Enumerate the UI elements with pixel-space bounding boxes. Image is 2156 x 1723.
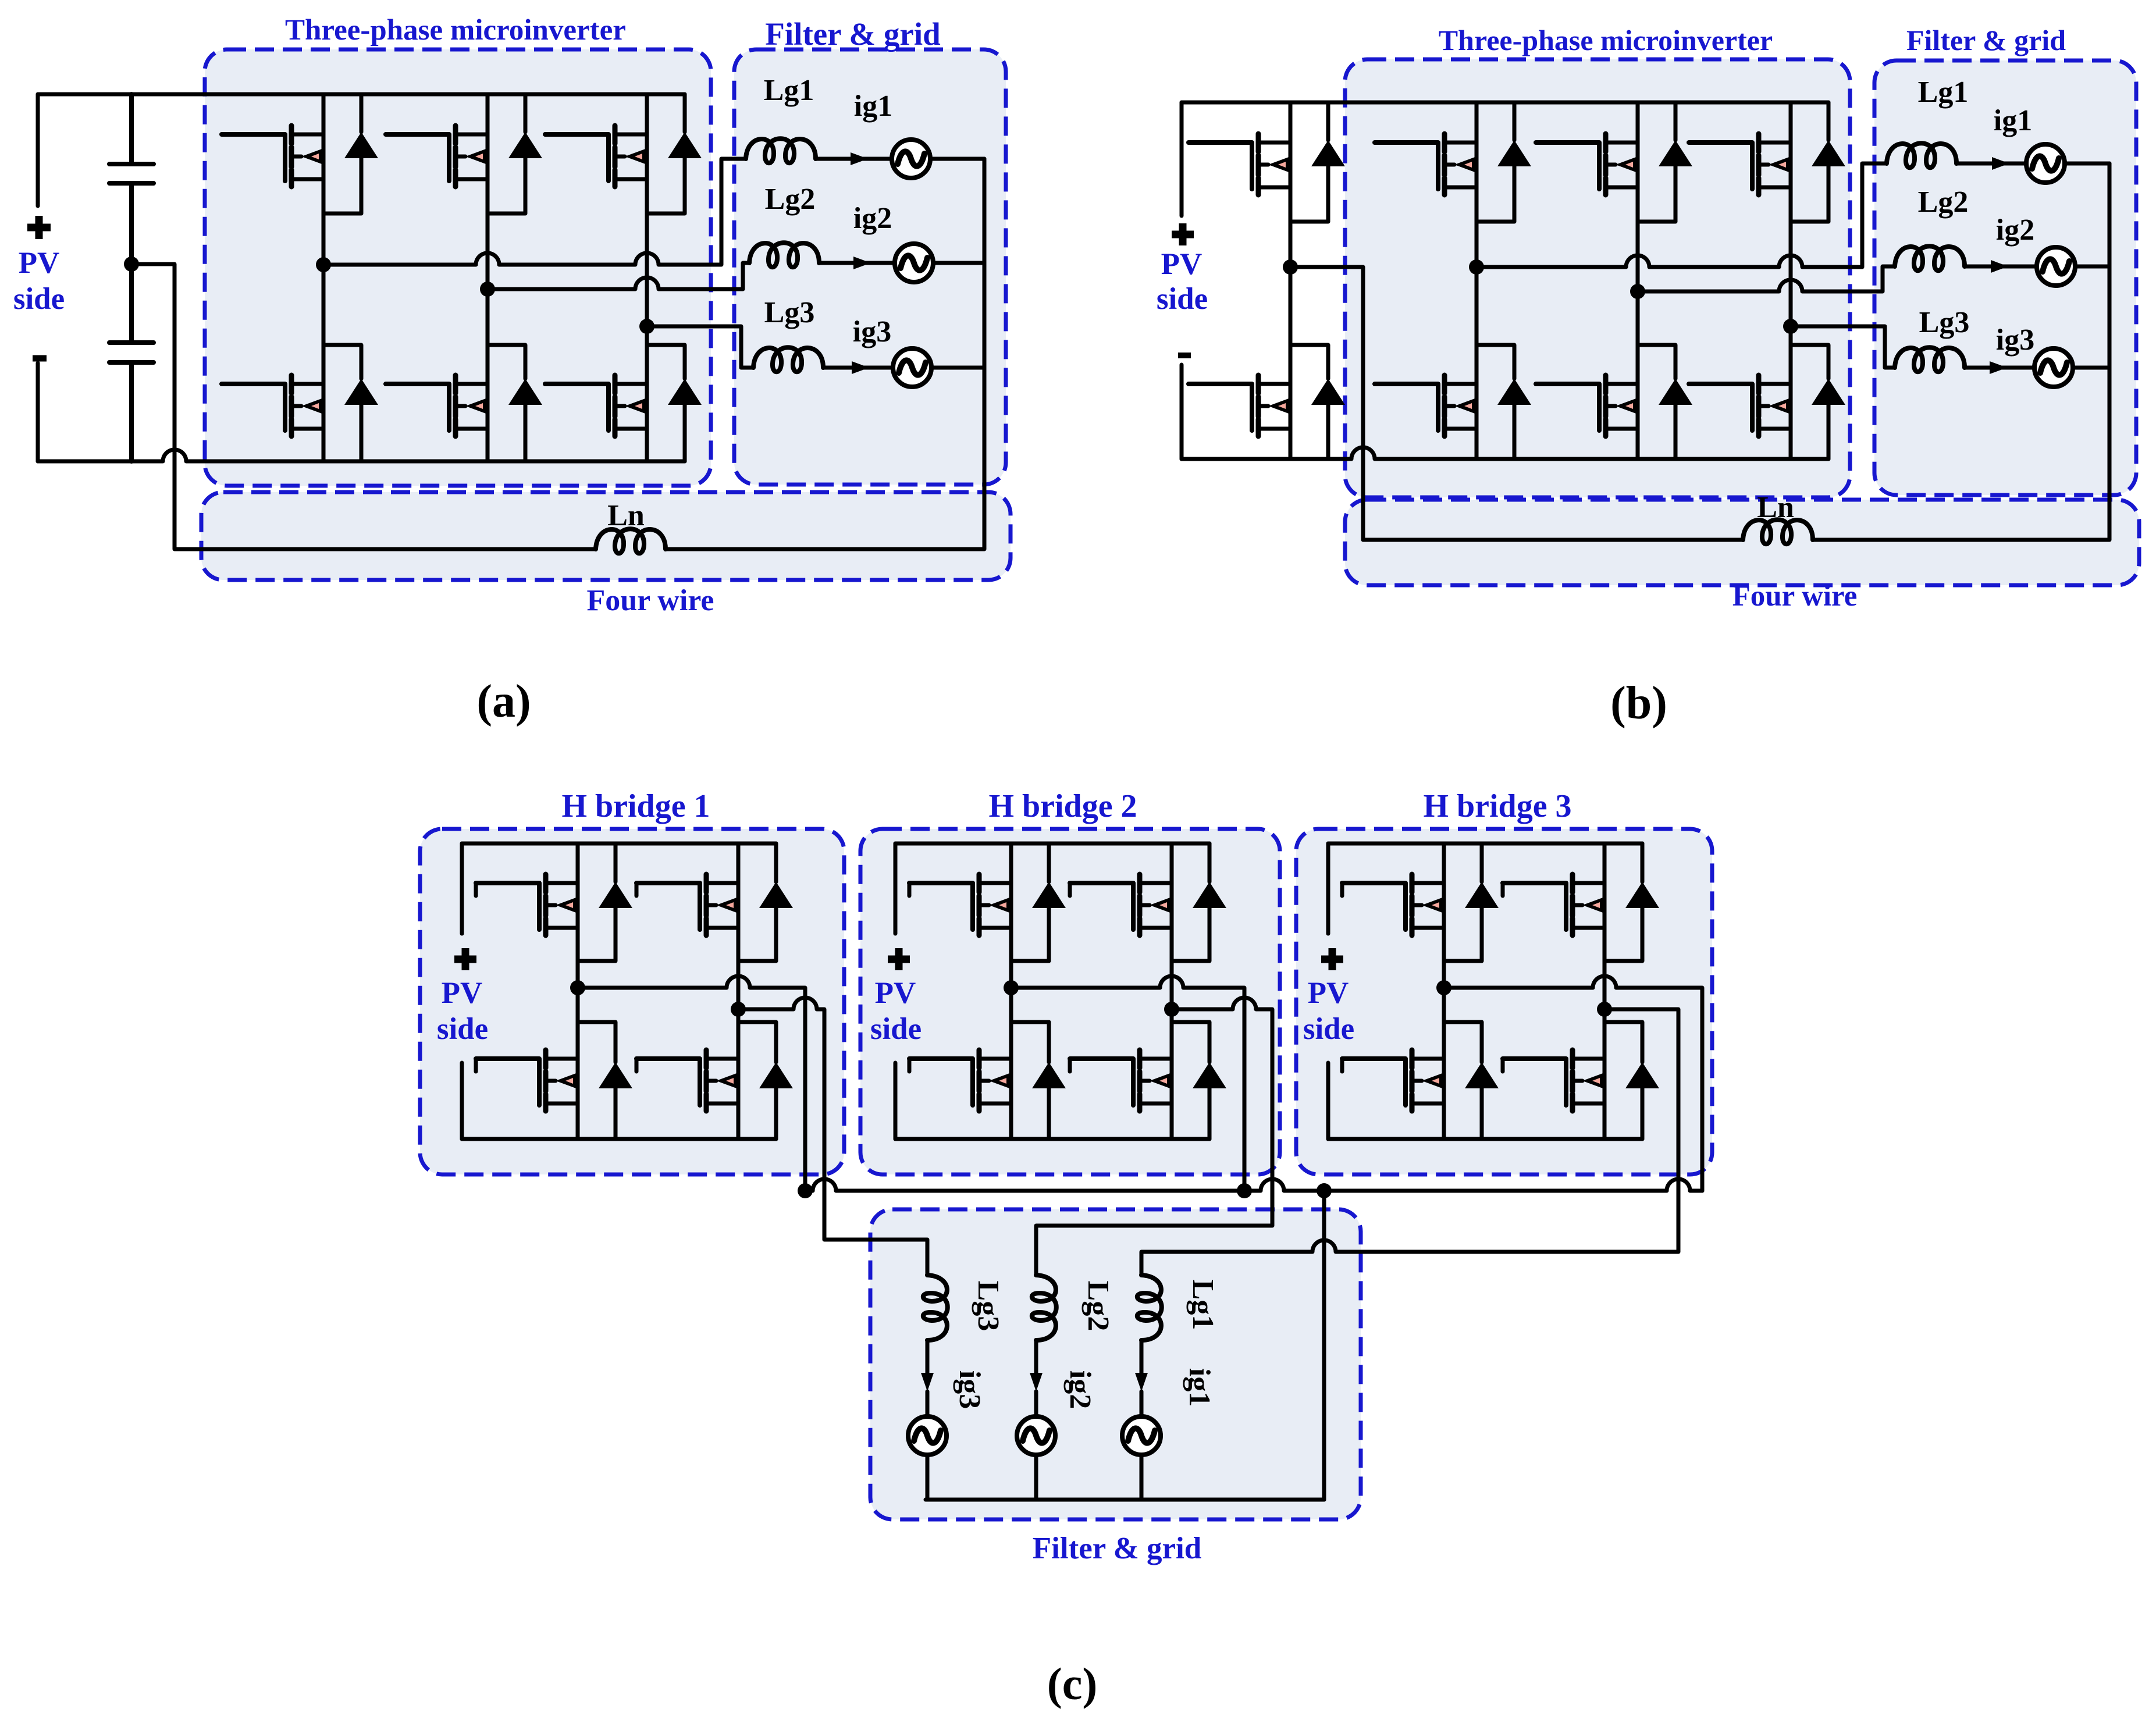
svg-text:(c): (c) bbox=[1047, 1658, 1098, 1709]
svg-text:ig3: ig3 bbox=[853, 315, 891, 348]
svg-text:Lg2: Lg2 bbox=[765, 183, 816, 216]
svg-text:Lg1: Lg1 bbox=[1918, 76, 1969, 109]
svg-text:ig2: ig2 bbox=[853, 202, 892, 235]
svg-text:Lg2: Lg2 bbox=[1918, 186, 1969, 219]
svg-text:Lg1: Lg1 bbox=[1186, 1280, 1219, 1330]
svg-text:PV: PV bbox=[875, 976, 916, 1010]
svg-text:PV: PV bbox=[19, 246, 60, 280]
svg-text:side: side bbox=[1303, 1012, 1354, 1046]
svg-text:Four wire: Four wire bbox=[1732, 580, 1858, 613]
svg-text:ig1: ig1 bbox=[1183, 1368, 1216, 1407]
svg-text:Lg3: Lg3 bbox=[1919, 306, 1970, 339]
svg-text:Lg3: Lg3 bbox=[972, 1281, 1005, 1332]
svg-text:Lg3: Lg3 bbox=[764, 296, 815, 329]
svg-text:ig3: ig3 bbox=[953, 1370, 986, 1409]
svg-text:Three-phase microinverter: Three-phase microinverter bbox=[1439, 24, 1773, 56]
svg-text:ig3: ig3 bbox=[1996, 323, 2034, 357]
svg-text:(a): (a) bbox=[476, 676, 531, 727]
svg-text:Lg2: Lg2 bbox=[1081, 1281, 1115, 1332]
svg-text:ig2: ig2 bbox=[1063, 1370, 1097, 1409]
svg-text:PV: PV bbox=[1161, 247, 1202, 281]
svg-text:side: side bbox=[870, 1012, 922, 1046]
svg-text:H bridge 1: H bridge 1 bbox=[561, 788, 710, 824]
svg-text:Lg1: Lg1 bbox=[764, 74, 814, 107]
svg-text:Three-phase microinverter: Three-phase microinverter bbox=[285, 14, 626, 47]
svg-text:Ln: Ln bbox=[1757, 491, 1794, 524]
svg-text:Filter & grid: Filter & grid bbox=[1033, 1532, 1201, 1565]
svg-text:ig1: ig1 bbox=[1994, 104, 2032, 137]
svg-text:PV: PV bbox=[1308, 976, 1349, 1010]
svg-text:H bridge 2: H bridge 2 bbox=[988, 788, 1137, 824]
svg-text:Filter & grid: Filter & grid bbox=[765, 16, 940, 52]
svg-text:ig2: ig2 bbox=[1996, 213, 2034, 247]
svg-text:ig1: ig1 bbox=[854, 90, 892, 123]
svg-text:(b): (b) bbox=[1610, 678, 1667, 729]
svg-text:Ln: Ln bbox=[607, 499, 645, 532]
svg-text:side: side bbox=[437, 1012, 488, 1046]
svg-text:Four wire: Four wire bbox=[586, 584, 714, 617]
svg-text:side: side bbox=[1157, 282, 1208, 316]
svg-text:side: side bbox=[13, 282, 65, 316]
svg-text:PV: PV bbox=[442, 976, 483, 1010]
svg-text:Filter & grid: Filter & grid bbox=[1906, 24, 2066, 56]
svg-text:H bridge 3: H bridge 3 bbox=[1423, 788, 1571, 824]
